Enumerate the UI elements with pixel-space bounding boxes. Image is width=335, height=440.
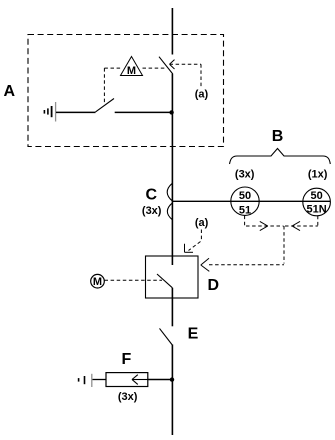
circuit breaker D box — [146, 256, 199, 298]
earthing switch wire left — [56, 111, 96, 113]
wire main bus below breaker — [171, 288, 173, 327]
wire surge arrester branch — [148, 379, 173, 381]
svg-text:F: F — [122, 351, 132, 368]
earthing switch wire right — [115, 111, 173, 113]
wire to ground (F) — [93, 379, 107, 381]
dashed control wire arrow into disconnect from (a) — [170, 60, 202, 88]
circuit breaker D blade — [157, 274, 172, 288]
enclosure A dashed box — [28, 35, 224, 147]
svg-text:C: C — [146, 187, 158, 204]
svg-text:(3x): (3x) — [142, 205, 162, 217]
brace under B — [230, 149, 331, 165]
svg-text:A: A — [4, 83, 16, 100]
dashed control wire M circle to breaker — [105, 279, 163, 281]
svg-text:(1x): (1x) — [308, 169, 328, 181]
earthing switch blade — [96, 99, 115, 112]
ground symbol (earthing switch) — [44, 102, 55, 122]
svg-text:B: B — [272, 128, 284, 145]
svg-text:M: M — [127, 65, 136, 77]
svg-text:M: M — [93, 276, 102, 288]
wire relay line — [173, 200, 331, 202]
motor operator M triangle — [121, 57, 143, 78]
disconnect switch E blade — [160, 328, 173, 345]
svg-text:(3x): (3x) — [118, 391, 138, 403]
svg-text:50: 50 — [310, 190, 322, 202]
dashed control wire (a) arrow into breaker — [185, 230, 202, 253]
dashed control wire from relay 50/51 — [245, 216, 284, 231]
wire main bus middle segment — [171, 74, 173, 265]
svg-text:51: 51 — [239, 205, 251, 217]
dashed control wire T down to breaker — [201, 226, 284, 271]
junction dot surge arrester tie — [170, 377, 174, 381]
relay 50/51 — [231, 187, 259, 217]
junction dot earthing tie — [169, 110, 173, 114]
svg-text:E: E — [188, 326, 199, 343]
surge arrester F arrow — [132, 375, 148, 385]
wire main bus bottom segment — [171, 345, 173, 436]
svg-text:(a): (a) — [195, 217, 209, 229]
relay 50/51N — [303, 188, 331, 216]
dashed control wire from relay 50/51N — [285, 216, 318, 231]
svg-text:51N: 51N — [307, 204, 327, 216]
svg-text:50: 50 — [239, 190, 251, 202]
disconnect switch blade (top, inside A) — [159, 57, 173, 74]
dashed control wire M to disconnect — [104, 67, 166, 69]
dashed control wire M to earthing switch — [103, 68, 105, 103]
motor operator M circle — [91, 274, 105, 288]
surge arrester F box — [106, 373, 148, 387]
ground symbol (F branch) — [79, 374, 92, 387]
svg-text:(a): (a) — [195, 89, 209, 101]
svg-text:(3x): (3x) — [235, 169, 255, 181]
wire main bus top segment — [171, 8, 173, 55]
current transformer C arcs — [167, 183, 173, 220]
svg-text:D: D — [208, 277, 220, 294]
